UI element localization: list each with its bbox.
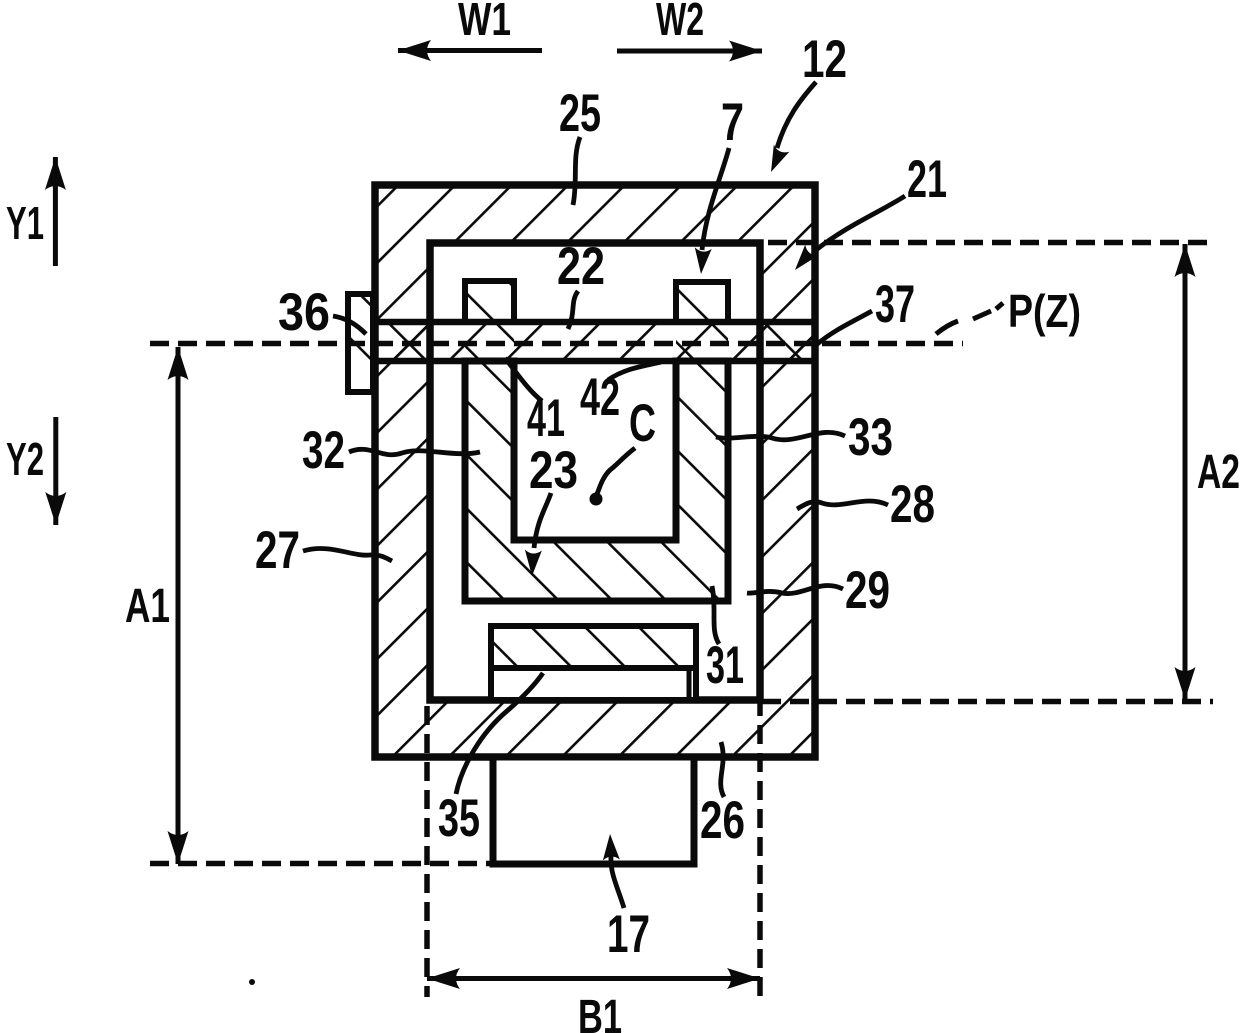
label 26 with leader <box>700 742 745 850</box>
dimension arrow W1 <box>398 0 542 61</box>
svg-text:Y2: Y2 <box>6 433 44 485</box>
svg-text:28: 28 <box>890 475 935 534</box>
svg-text:23: 23 <box>529 441 578 500</box>
svg-text:33: 33 <box>848 408 893 467</box>
label 33 with leader <box>716 408 893 467</box>
svg-text:32: 32 <box>302 421 345 480</box>
label 25 with leader <box>559 84 601 205</box>
svg-text:12: 12 <box>802 30 847 89</box>
svg-text:A1: A1 <box>125 580 170 633</box>
svg-text:29: 29 <box>845 561 890 620</box>
post 41 (left, above bar) <box>465 281 514 322</box>
svg-text:P(Z): P(Z) <box>1008 285 1081 337</box>
svg-text:17: 17 <box>607 905 650 964</box>
dashed line P(Z) datum <box>150 341 963 347</box>
svg-text:37: 37 <box>875 275 915 334</box>
svg-text:41: 41 <box>527 389 565 448</box>
stray dot <box>249 979 255 985</box>
svg-text:B1: B1 <box>578 991 622 1033</box>
label 36 with leader <box>278 283 366 342</box>
lower bar 31/35 <box>491 626 696 700</box>
label 7 with leader arrow <box>693 93 744 275</box>
label 21 with leader arrow <box>788 150 947 275</box>
svg-text:35: 35 <box>438 789 480 848</box>
svg-text:27: 27 <box>255 521 300 580</box>
label 35 with leader <box>438 673 543 848</box>
svg-text:7: 7 <box>721 93 744 152</box>
dimension arrow B1 <box>427 968 760 1033</box>
label C with squiggle leader and dot <box>590 394 657 506</box>
support bar 22 (horizontal hatched bar) <box>375 322 815 361</box>
dimension arrow Y1 <box>6 157 66 266</box>
label P(Z) with dash-dot leader <box>936 285 1081 337</box>
dashed line top (A2 upper datum) <box>768 240 1213 246</box>
svg-text:31: 31 <box>706 636 744 695</box>
label 22 with leader <box>557 237 605 329</box>
svg-text:22: 22 <box>557 237 605 296</box>
svg-text:Y1: Y1 <box>6 197 44 249</box>
dashed vertical B1 left <box>424 706 430 997</box>
tab 36 (left outside plate) <box>348 294 373 392</box>
dimension arrow A2 <box>1175 244 1240 700</box>
label 23 with leader arrow <box>524 441 578 576</box>
label 12 with leader arrow <box>763 30 847 175</box>
dashed vertical B1 right <box>757 697 763 1000</box>
housing body 12 (outer hatched frame) <box>375 185 815 757</box>
dimension arrow Y2 <box>6 417 66 525</box>
dimension arrow A1 <box>125 347 189 864</box>
svg-text:C: C <box>629 394 656 453</box>
label 29 with leader <box>747 561 890 620</box>
svg-text:26: 26 <box>700 791 745 850</box>
label 42 with leader <box>580 362 661 427</box>
label 41 with leader <box>505 358 565 448</box>
svg-text:W2: W2 <box>656 0 704 45</box>
svg-text:36: 36 <box>278 283 330 342</box>
svg-text:W1: W1 <box>458 0 511 45</box>
dashed line lower (A2 lower datum) <box>762 699 1213 705</box>
svg-text:25: 25 <box>559 84 601 143</box>
label 37 with leader <box>816 275 915 345</box>
post 42 / 7 (right, above bar) <box>676 282 728 322</box>
dimension arrow W2 <box>617 0 762 62</box>
dashed line bottom (A1 lower datum) <box>150 861 493 867</box>
label 31 with leader <box>706 586 744 695</box>
svg-text:21: 21 <box>907 150 947 209</box>
label 17 with leader arrow <box>602 834 650 964</box>
svg-text:A2: A2 <box>1197 446 1240 499</box>
label 27 with leader <box>255 521 392 580</box>
inner cup 32/33/23 (U-shaped hatched piece) <box>465 361 728 601</box>
label 32 with leader <box>302 421 480 480</box>
label 28 with leader <box>797 475 935 534</box>
pedestal 17 <box>493 757 694 864</box>
